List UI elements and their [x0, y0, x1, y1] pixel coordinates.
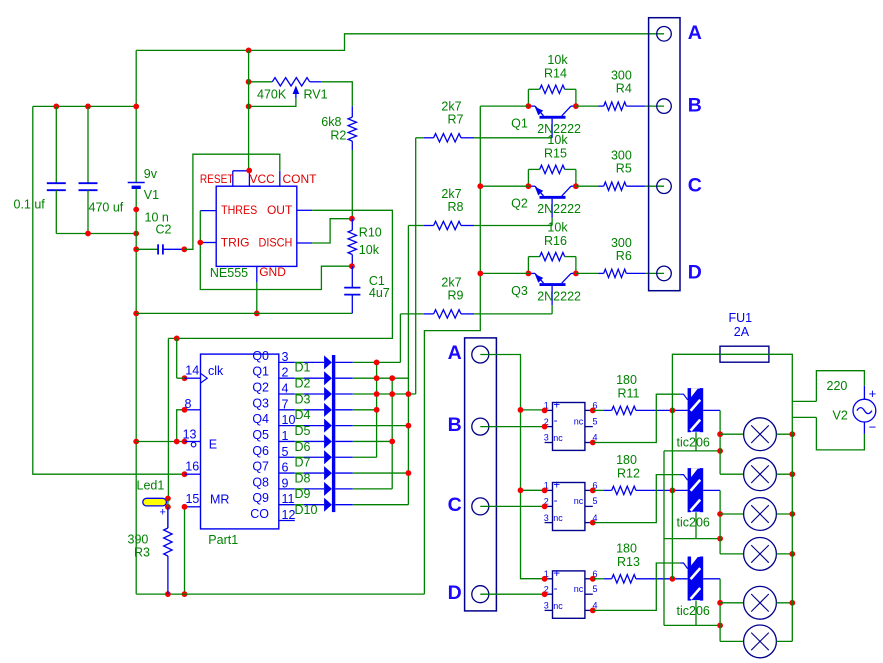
svg-text:6: 6 — [282, 461, 289, 475]
svg-text:16: 16 — [185, 460, 199, 474]
svg-text:13: 13 — [183, 428, 197, 442]
svg-text:nc: nc — [574, 416, 584, 426]
pin Q5 (1) stub — [279, 440, 295, 442]
optocoupler U2 — [553, 403, 585, 451]
op-amp U1 NE555 body — [216, 186, 297, 266]
svg-text:R12: R12 — [617, 466, 640, 480]
svg-text:+: + — [553, 568, 560, 580]
node opto1 pin1 — [542, 408, 548, 414]
svg-text:220: 220 — [827, 379, 848, 393]
svg-text:7: 7 — [282, 397, 289, 411]
wire bottom ground rail — [136, 593, 424, 595]
node RV1 wiper wire — [246, 104, 252, 110]
diode D3 — [295, 393, 304, 395]
node Q2 collector — [573, 183, 579, 189]
node lamp right bus — [789, 431, 795, 437]
svg-text:9: 9 — [282, 476, 289, 490]
resistor R15 10k — [527, 169, 529, 186]
svg-text:Q0: Q0 — [252, 349, 269, 363]
node opto2 pin4 — [590, 520, 596, 526]
pin 16 stub — [185, 473, 201, 475]
svg-text:10: 10 — [282, 413, 296, 427]
node mains bus R11 — [670, 408, 676, 414]
node return lamp bus 3 — [717, 623, 723, 629]
svg-text:3: 3 — [544, 513, 549, 523]
svg-text:Q4: Q4 — [252, 412, 269, 426]
pin THRES stub — [200, 210, 216, 212]
wire OUT to clock net — [168, 210, 392, 338]
svg-text:Q2: Q2 — [252, 381, 269, 395]
node Q3 collector — [573, 271, 579, 277]
pin 13 E stub — [185, 441, 201, 443]
svg-text:tic206: tic206 — [677, 516, 710, 530]
svg-text:2k7: 2k7 — [441, 187, 461, 201]
node opto3 pin1 — [542, 576, 548, 582]
node battery minus — [133, 207, 139, 213]
svg-text:B: B — [688, 94, 702, 116]
svg-text:+: + — [553, 400, 560, 412]
node return lamp bus 2 — [717, 536, 723, 542]
wire THRES-TRIG tie to RC node — [200, 211, 352, 290]
svg-text:11: 11 — [282, 492, 295, 506]
svg-text:R3: R3 — [134, 546, 150, 560]
node matrix junction — [389, 375, 395, 381]
svg-text:5: 5 — [282, 445, 289, 459]
potentiometer RV1 470K body — [272, 78, 309, 86]
svg-text:9v: 9v — [144, 167, 158, 181]
terminal J2-B — [472, 418, 489, 435]
wire E row ground — [136, 441, 184, 443]
svg-text:D5: D5 — [295, 424, 311, 438]
node Led1 top — [165, 496, 171, 502]
node A bus opto2 — [518, 487, 524, 493]
wire opto3 pin4 to triac gate — [593, 563, 680, 610]
svg-text:D4: D4 — [295, 408, 311, 422]
wire triac1 MT2 return — [695, 432, 697, 451]
pin VCC stub — [248, 171, 250, 186]
node Q2 emitter — [526, 183, 532, 189]
wire opto1 pin4 to triac gate — [593, 394, 680, 442]
node opto2 pin2 — [542, 504, 548, 510]
node Q1 collector — [573, 103, 579, 109]
battery V1 9v — [128, 182, 145, 184]
wire lamps right bus — [791, 401, 793, 641]
svg-text:1: 1 — [282, 429, 289, 443]
svg-text:Q6: Q6 — [252, 444, 269, 458]
svg-text:D7: D7 — [295, 456, 311, 470]
svg-text:470K: 470K — [257, 88, 287, 102]
diode D6 — [295, 440, 304, 442]
svg-text:5: 5 — [593, 496, 598, 506]
svg-text:R13: R13 — [617, 555, 640, 569]
resistor R4 300 — [576, 105, 599, 107]
terminal J2-D — [472, 586, 489, 603]
svg-text:390: 390 — [128, 533, 149, 547]
wire V+ column to 555 VCC — [248, 50, 250, 170]
svg-text:R10: R10 — [359, 226, 382, 240]
wire J2-D to opto3 pin2 — [480, 593, 544, 595]
wire RV1 left lead — [249, 81, 273, 83]
pin 15 MR stub — [185, 506, 201, 508]
svg-text:3: 3 — [544, 601, 549, 611]
transistor Q3 2N2222 — [540, 283, 566, 286]
terminal J2-C — [472, 498, 489, 515]
svg-text:180: 180 — [616, 373, 637, 387]
svg-text:D: D — [688, 262, 702, 284]
svg-text:2k7: 2k7 — [441, 99, 461, 113]
svg-text:C: C — [688, 174, 702, 196]
wire matrix row D3 — [353, 393, 416, 395]
svg-text:R5: R5 — [616, 162, 632, 176]
pin Q7 (6) stub — [279, 472, 295, 474]
wire Q2 emitter link — [480, 185, 529, 187]
svg-text:NE555: NE555 — [210, 266, 248, 280]
wire J2-A to opto anode bus — [480, 355, 544, 579]
svg-text:D1: D1 — [295, 361, 311, 375]
node lamp1 left — [717, 431, 723, 437]
wire triac3 MT2 to lamp bus — [703, 578, 720, 580]
optocoupler U4 — [553, 571, 585, 618]
svg-text:10k: 10k — [547, 53, 568, 67]
pin CO (12) stub — [279, 520, 295, 522]
node opto1 pin6 — [590, 408, 596, 414]
triac T2 tic206 — [688, 468, 691, 512]
svg-text:OUT: OUT — [267, 203, 293, 217]
node gnd rail 4017 E — [133, 439, 139, 445]
svg-text:2: 2 — [282, 366, 289, 380]
svg-text:-: - — [554, 415, 558, 427]
resistor R6 300 — [576, 272, 599, 274]
svg-text:D2: D2 — [295, 377, 311, 391]
node R10 bottom C1 top — [349, 263, 355, 269]
pin CONT stub — [279, 171, 281, 186]
svg-text:Q5: Q5 — [252, 428, 269, 442]
wire J2-B to opto1 pin2 — [480, 426, 544, 428]
lamp LP3 — [720, 513, 744, 515]
svg-text:6k8: 6k8 — [321, 115, 341, 129]
resistor R8 2k7 — [408, 225, 423, 227]
svg-text:2N2222: 2N2222 — [537, 289, 581, 303]
svg-text:10k: 10k — [547, 133, 568, 147]
wire matrix row D8 — [353, 472, 409, 474]
transistor Q1 2N2222 — [540, 116, 566, 119]
svg-text:TRIG: TRIG — [221, 236, 250, 250]
svg-text:CONT: CONT — [283, 172, 318, 186]
wire V2 return to lamps bus — [792, 416, 816, 418]
resistor R11 180 — [593, 409, 604, 411]
terminal J1-D — [657, 266, 672, 281]
node Q1 emitter — [526, 103, 532, 109]
wire fuse right to V2 top — [769, 354, 817, 401]
lamp LP1 — [720, 433, 744, 435]
wire C2 to CONT pin — [184, 154, 279, 249]
pin TRIG stub — [202, 242, 216, 244]
wire J2-C to opto2 pin2 — [480, 505, 544, 507]
node cap C3 top — [53, 104, 59, 110]
wire matrix column 3 to R8 — [407, 226, 409, 505]
svg-text:E: E — [209, 438, 217, 452]
svg-text:-: - — [554, 495, 558, 507]
node R10 top — [349, 216, 355, 222]
node matrix junction — [406, 470, 412, 476]
wire lamp pair 1 left bus — [719, 434, 721, 474]
node opto2 pin6 — [590, 488, 596, 494]
connector J1 body — [649, 18, 680, 291]
connector J2 body — [465, 338, 497, 611]
node matrix junction — [374, 407, 380, 413]
wire RV1 right to R2 — [321, 82, 352, 107]
node lamp right bus — [789, 471, 795, 477]
svg-text:D3: D3 — [295, 392, 311, 406]
svg-text:D: D — [448, 582, 462, 604]
wire led to R3 — [167, 499, 169, 529]
resistor R5 300 — [576, 185, 599, 187]
svg-text:14: 14 — [185, 364, 199, 378]
svg-text:3: 3 — [544, 433, 549, 443]
svg-text:D6: D6 — [295, 440, 311, 454]
capacitor C4 470uf — [87, 106, 89, 183]
wire battery negative / ground rail down — [135, 189, 137, 594]
lamp LP2 — [720, 473, 744, 475]
wire matrix row D4 — [353, 409, 377, 411]
wire opto2 pin4 to triac gate — [593, 475, 680, 523]
node lamp5 left — [717, 600, 723, 606]
svg-text:300: 300 — [611, 236, 632, 250]
node lamp right bus — [789, 551, 795, 557]
terminal J1-B — [657, 99, 672, 114]
node lamp right bus — [789, 600, 795, 606]
node MR at rail — [182, 591, 188, 597]
diode D4 — [295, 409, 304, 411]
svg-text:V1: V1 — [144, 188, 159, 202]
svg-text:Q1: Q1 — [252, 365, 269, 379]
svg-text:C: C — [448, 494, 462, 516]
capacitor C3 0.1uf — [55, 106, 57, 183]
svg-text:10k: 10k — [547, 220, 568, 234]
capacitor C1 4u7 — [351, 266, 353, 287]
terminal J1-A — [657, 27, 672, 42]
svg-text:R16: R16 — [544, 234, 567, 248]
node matrix junction — [374, 360, 380, 366]
svg-text:180: 180 — [616, 453, 637, 467]
node opto3 pin2 — [542, 591, 548, 597]
svg-text:THRES: THRES — [221, 203, 257, 217]
svg-text:R2: R2 — [330, 129, 346, 143]
wire DISCH to R10 top — [312, 219, 352, 243]
terminal J1-C — [657, 179, 672, 194]
node emitters Q3 — [477, 271, 483, 277]
node battery top rail — [133, 104, 139, 110]
node mains bus R13 — [670, 576, 676, 582]
svg-text:2k7: 2k7 — [441, 275, 461, 289]
node MR wire — [182, 504, 188, 510]
svg-text:A: A — [448, 342, 462, 364]
svg-text:Q9: Q9 — [252, 491, 269, 505]
pin OUT stub — [297, 209, 312, 211]
wire matrix row D10 — [353, 504, 409, 506]
svg-text:RV1: RV1 — [304, 88, 328, 102]
node TRIG — [197, 240, 203, 246]
svg-text:Q7: Q7 — [252, 460, 269, 474]
svg-text:D8: D8 — [295, 471, 311, 485]
node mains bus R12 — [670, 488, 676, 494]
diode D9 — [295, 488, 304, 490]
wire matrix row D9 — [353, 488, 392, 490]
svg-text:nc: nc — [574, 496, 584, 506]
node gnd rail 555 — [133, 311, 139, 317]
node caps rail to ground rail — [133, 231, 139, 237]
svg-text:+: + — [869, 386, 877, 401]
diode D10 — [295, 504, 304, 506]
node opto2 pin1 — [542, 488, 548, 494]
pin 8 stub — [185, 409, 201, 411]
node clk branch — [174, 336, 180, 342]
pin Q8 (9) stub — [279, 488, 295, 490]
node matrix junction — [389, 391, 395, 397]
svg-text:tic206: tic206 — [677, 436, 710, 450]
node A bus opto1 — [518, 407, 524, 413]
wire triac1 MT2 to lamp bus — [703, 409, 720, 411]
svg-text:R8: R8 — [448, 200, 464, 214]
svg-text:nc: nc — [553, 433, 563, 443]
svg-text:-: - — [554, 583, 558, 595]
counter Part1 4017 body — [201, 354, 279, 529]
lamp LP6 — [720, 640, 744, 642]
svg-text:5: 5 — [593, 416, 598, 426]
svg-text:V2: V2 — [833, 409, 848, 423]
node E wire end — [182, 439, 188, 445]
svg-text:D10: D10 — [295, 503, 318, 517]
lamp LP4 — [720, 553, 744, 555]
wire caps bottom rail — [56, 233, 136, 235]
wire emitters common to ground — [424, 106, 480, 594]
node matrix junction — [406, 391, 412, 397]
svg-text:FU1: FU1 — [729, 311, 753, 325]
resistor R12 180 — [593, 489, 604, 491]
wire matrix row D1 — [353, 361, 401, 363]
svg-text:C2: C2 — [156, 223, 172, 237]
pin Q9 (11) stub — [279, 504, 295, 506]
svg-text:clk: clk — [208, 364, 224, 378]
svg-text:4u7: 4u7 — [369, 286, 390, 300]
svg-text:Part1: Part1 — [208, 533, 238, 547]
svg-text:+: + — [160, 507, 166, 519]
pin RESET stub — [232, 171, 234, 186]
resistor R2 6k8 — [351, 106, 353, 117]
svg-text:4: 4 — [282, 382, 289, 396]
diode D8 — [295, 472, 304, 474]
wire lamp pair 2 left bus — [719, 514, 721, 554]
node matrix junction — [374, 375, 380, 381]
pin DISCH stub — [297, 242, 312, 244]
svg-text:nc: nc — [553, 513, 563, 523]
node e-row pin8 join — [174, 439, 180, 445]
svg-text:470 uf: 470 uf — [89, 201, 124, 215]
wire matrix row D7 — [353, 456, 377, 458]
node pin8 wire — [182, 407, 188, 413]
pin Q0 (3) stub — [279, 361, 295, 363]
resistor R7 2k7 — [416, 137, 424, 139]
svg-text:DISCH: DISCH — [259, 236, 293, 250]
wire battery positive lead — [135, 50, 137, 182]
svg-text:D9: D9 — [295, 487, 311, 501]
svg-text:R11: R11 — [617, 386, 639, 400]
diode D2 — [295, 377, 304, 379]
svg-text:8: 8 — [185, 397, 192, 411]
resistor R13 180 — [593, 578, 604, 580]
svg-text:180: 180 — [616, 541, 637, 555]
node Led1 bottom — [165, 504, 171, 510]
node VCC-RESET tie — [246, 168, 252, 174]
svg-text:B: B — [448, 414, 462, 436]
led Led1 — [143, 498, 167, 506]
svg-text:R15: R15 — [544, 147, 567, 161]
pin Q2 (4) stub — [279, 393, 295, 395]
svg-text:tic206: tic206 — [677, 604, 710, 618]
svg-text:MR: MR — [210, 492, 229, 506]
svg-text:Q2: Q2 — [511, 197, 528, 211]
potentiometer RV1 wiper arrow — [249, 98, 296, 106]
diode D5 — [295, 425, 304, 427]
wire triac3 MT2 return — [695, 601, 697, 626]
wire matrix row D2 — [353, 377, 409, 379]
svg-text:R4: R4 — [616, 82, 632, 96]
node emitters Q2 — [477, 183, 483, 189]
svg-text:10k: 10k — [359, 243, 380, 257]
pin clk stub with clock triangle — [185, 377, 201, 379]
svg-text:VCC: VCC — [250, 172, 276, 186]
resistor R14 10k — [527, 89, 529, 106]
capacitor C2 10n — [136, 248, 158, 250]
lamp LP5 — [720, 602, 744, 604]
svg-text:nc: nc — [553, 601, 563, 611]
node cap C4 bottom — [85, 231, 91, 237]
node RV1 left — [246, 79, 252, 85]
svg-text:A: A — [688, 22, 702, 44]
transistor Q2 2N2222 — [540, 196, 566, 199]
svg-text:300: 300 — [611, 69, 632, 83]
node clk wire end — [182, 375, 188, 381]
wire matrix row D6 — [353, 440, 392, 442]
svg-text:R14: R14 — [544, 67, 567, 81]
svg-text:+: + — [553, 480, 560, 492]
optocoupler U3 — [553, 483, 585, 531]
svg-text:2N2222: 2N2222 — [537, 202, 581, 216]
node C2 right — [181, 246, 187, 252]
svg-text:2A: 2A — [734, 325, 750, 339]
source V2 symbol — [863, 386, 865, 399]
wire triac2 MT2 to lamp bus — [703, 489, 720, 491]
node matrix junction — [389, 439, 395, 445]
resistor R10 10k — [351, 219, 353, 230]
wire 555 ground rail — [136, 312, 352, 314]
node opto3 pin4 — [590, 608, 596, 614]
wire matrix column 4 to R7 — [415, 138, 417, 394]
wire A bus to opto2 pin1 — [521, 489, 545, 491]
pin Q3 (7) stub — [279, 409, 295, 411]
node lamp right bus — [789, 511, 795, 517]
wire left V+ drop to 4017 pin16 — [33, 106, 185, 474]
diode D1 — [295, 361, 304, 363]
svg-text:Q3: Q3 — [252, 396, 269, 410]
svg-text:Q1: Q1 — [511, 117, 528, 131]
wire lamp pair 3 left bus — [719, 603, 721, 642]
pin Q1 (2) stub — [279, 377, 295, 379]
wire A bus to opto1 pin1 — [521, 409, 545, 411]
resistor R16 10k — [527, 257, 529, 274]
wire lamp return common bus — [663, 451, 665, 626]
node cap C4 top — [85, 104, 91, 110]
